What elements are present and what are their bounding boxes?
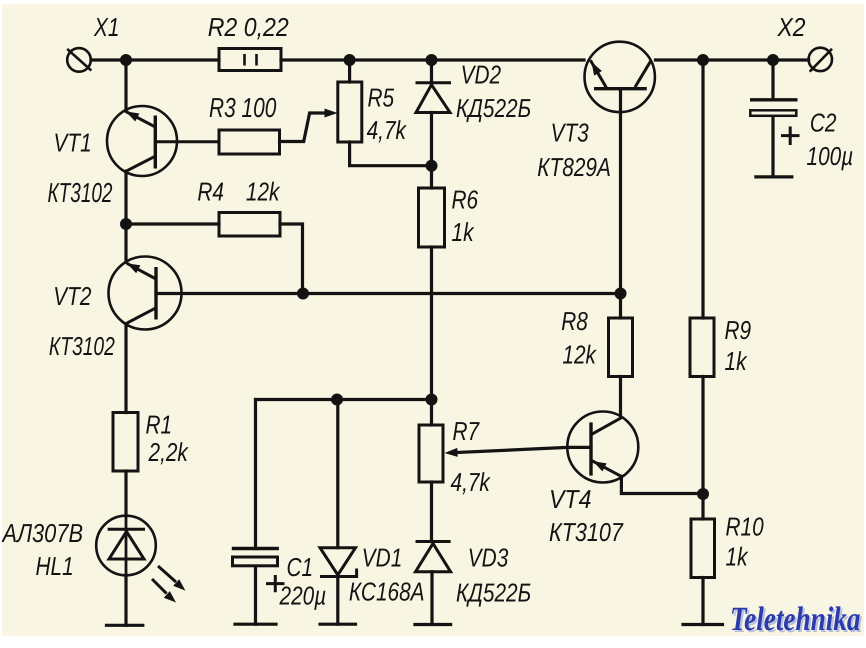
wire top rail middle segment (281, 58, 584, 61)
transistor VT1 (107, 106, 219, 176)
svg-text:VD1: VD1 (362, 543, 402, 573)
arrowhead R7 wiper (445, 448, 458, 457)
svg-text:12k: 12k (562, 340, 597, 370)
svg-text:КД522Б: КД522Б (456, 578, 531, 608)
resistor R2 (219, 49, 281, 71)
wire R6 to lower rail node (430, 247, 433, 400)
zener VD1 (320, 548, 357, 577)
wire R5 bottom to VD2-R6 node (350, 142, 432, 166)
wire node B to R10 (701, 494, 704, 519)
wire top rail right segment (656, 58, 809, 61)
wire lower rail node to R7 (430, 400, 433, 426)
wire VD2 to R6 (430, 113, 433, 189)
transistor VT4 (567, 412, 638, 483)
svg-text:R6: R6 (452, 185, 479, 215)
svg-text:R3 100: R3 100 (209, 92, 277, 123)
wire bottom bar under HL1 (107, 624, 143, 627)
svg-text:КТ829А: КТ829А (537, 152, 611, 182)
wire bottom bar under C1 (235, 623, 276, 626)
wire C1 to bottom bar (254, 567, 257, 624)
LED light arrow 2 (152, 579, 176, 603)
svg-text:КТ3107: КТ3107 (549, 517, 624, 547)
arrowhead R5 wiper (325, 109, 338, 118)
svg-text:C1: C1 (287, 552, 314, 582)
svg-text:2,2k: 2,2k (148, 437, 190, 467)
svg-text:HL1: HL1 (36, 551, 74, 581)
node R4 mid rail (297, 288, 309, 300)
terminal X1 (67, 48, 91, 72)
wire R10 to bottom bar (701, 578, 704, 625)
label C1 plus (266, 575, 285, 592)
transistor VT3 (585, 42, 655, 112)
svg-text:X2: X2 (777, 12, 806, 42)
node R7 top (426, 394, 438, 406)
wire node A to R4 (126, 222, 219, 225)
wire HL1 to bottom bar (124, 575, 127, 625)
wire R3 to R5 wiper bend (280, 113, 327, 142)
wire mid rail node to R8 (619, 294, 622, 319)
svg-text:АЛ307В: АЛ307В (1, 518, 83, 548)
node VT3 base R8 (615, 288, 627, 300)
node VD2 top (426, 54, 438, 66)
svg-text:R1: R1 (146, 410, 173, 440)
resistor R4 (219, 213, 280, 237)
watermark Teletehnika (730, 601, 862, 640)
svg-text:КС168А: КС168А (349, 577, 425, 607)
node C2 top (767, 54, 779, 66)
diode VD2 (416, 83, 452, 113)
capacitor C2 (750, 100, 798, 116)
LED HL1 (96, 516, 156, 576)
svg-text:VT1: VT1 (54, 128, 92, 158)
wire top rail to C2 (771, 60, 774, 100)
transistor VT2 (109, 257, 182, 330)
node R9 top (697, 54, 709, 66)
svg-text:100µ: 100µ (807, 141, 854, 171)
wire bottom bar under C2 (756, 175, 792, 178)
resistor R8 (609, 318, 633, 377)
svg-text:4,7k: 4,7k (367, 115, 408, 145)
wire mid rail VT2 base to VT3 base (156, 292, 621, 295)
svg-text:КТ3102: КТ3102 (49, 331, 115, 361)
wire R7 wiper to VT4 base (458, 447, 592, 452)
svg-text:VT4: VT4 (549, 484, 591, 514)
svg-text:VT2: VT2 (53, 281, 92, 311)
wire R8 to VT4 collector (619, 377, 622, 418)
wire bottom bar under VD3 (415, 623, 451, 626)
svg-text:X1: X1 (93, 12, 119, 42)
wire C2 to bottom bar (771, 117, 774, 177)
svg-text:R2 0,22: R2 0,22 (208, 12, 290, 42)
svg-text:R9: R9 (725, 315, 752, 345)
diode VD3 (416, 542, 451, 572)
resistor R10 (691, 519, 715, 578)
node X1 junction (120, 54, 132, 66)
wire bottom bar under VD1 (320, 623, 356, 626)
wire X1 node to VT1 emitter (124, 60, 127, 111)
svg-text:КД522Б: КД522Б (456, 93, 531, 123)
svg-text:КТ3102: КТ3102 (48, 177, 113, 208)
svg-text:VD2: VD2 (461, 60, 502, 90)
wire R4 to mid rail (280, 224, 303, 294)
node R5 top (344, 54, 356, 66)
wire top rail left segment (91, 58, 219, 61)
wire lower rail corner to C1 (254, 400, 257, 549)
node R5-VD2-R6 (426, 160, 438, 172)
svg-text:C2: C2 (810, 108, 837, 138)
svg-text:R10: R10 (726, 512, 765, 542)
svg-text:220µ: 220µ (279, 581, 327, 611)
wire VT2 collector to R1 (124, 324, 127, 413)
svg-text:R8: R8 (561, 306, 588, 336)
wire top rail to R5 (348, 60, 351, 82)
svg-text:Teletehnika: Teletehnika (730, 601, 860, 638)
resistor R6 (419, 188, 445, 247)
wire lower rail to VD1 (336, 400, 339, 548)
resistor R7 (419, 425, 443, 482)
wire bottom bar under R10 (683, 623, 723, 626)
wire lower rail C1 to R7 node (256, 398, 432, 401)
capacitor C1 (232, 549, 279, 566)
wire VT3 base down (619, 89, 622, 294)
wire R9 to emitter node (701, 377, 704, 495)
resistor R3 (219, 130, 280, 154)
resistor R5 (338, 82, 362, 142)
wire top rail to R9 (701, 60, 704, 318)
node VD1 top (331, 394, 343, 406)
svg-text:12k: 12k (246, 177, 281, 207)
LED light arrow 1 (158, 566, 185, 591)
svg-text:R4: R4 (197, 177, 224, 207)
wire node A to VT2 emitter (124, 224, 127, 262)
wire top rail to VD2 (430, 60, 433, 83)
svg-text:VD3: VD3 (468, 543, 509, 573)
svg-text:1k: 1k (726, 542, 750, 572)
wire VT1 collector to node A (124, 171, 127, 224)
terminal X2 (809, 48, 832, 72)
svg-text:1k: 1k (725, 346, 749, 376)
wire R7 to VD3 (430, 482, 433, 542)
svg-text:R7: R7 (453, 416, 481, 446)
node B R9-R10 (697, 488, 709, 500)
resistor R1 (113, 413, 138, 472)
svg-text:R5: R5 (368, 82, 395, 112)
node A VT1-VT2 (120, 218, 132, 230)
wire VD1 to bottom bar (336, 577, 339, 625)
wire R1 to HL1 (124, 471, 127, 516)
wire VT4 emitter to node B (621, 476, 703, 493)
wire VD3 to bottom bar (430, 572, 433, 625)
resistor R9 (690, 318, 714, 377)
label C2 plus (781, 127, 800, 146)
svg-text:VT3: VT3 (551, 118, 590, 148)
svg-text:4,7k: 4,7k (451, 467, 492, 497)
svg-text:1k: 1k (452, 217, 476, 247)
